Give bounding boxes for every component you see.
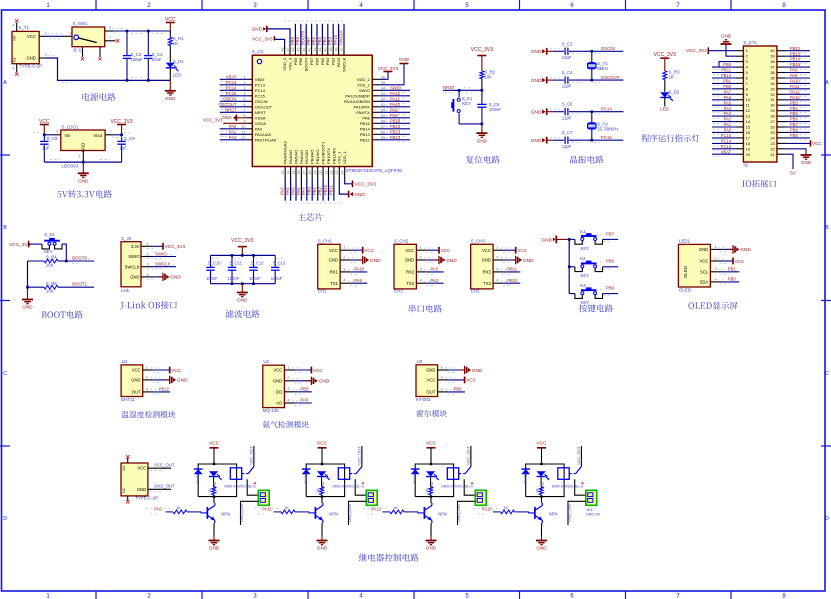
resistor S_R1 xyxy=(168,36,184,62)
wires chip bottom pins xyxy=(280,167,345,204)
power GND S_CH3 xyxy=(504,256,534,264)
svg-text:PA8: PA8 xyxy=(300,398,308,403)
svg-text:PB7: PB7 xyxy=(606,231,615,236)
svg-text:PB15: PB15 xyxy=(360,121,371,126)
svg-text:PB3: PB3 xyxy=(328,36,333,45)
svg-text:VSS_1: VSS_1 xyxy=(337,151,342,164)
svg-text:PA15: PA15 xyxy=(336,57,341,67)
ground GND relay xyxy=(317,523,328,551)
svg-text:S_U1: S_U1 xyxy=(252,49,264,54)
wire ground rail xyxy=(39,53,170,83)
svg-text:GND: GND xyxy=(721,33,732,38)
svg-text:PB12: PB12 xyxy=(390,135,401,140)
svg-text:VCC: VCC xyxy=(517,248,527,253)
svg-text:PA3: PA3 xyxy=(724,111,732,116)
ground GND ldo xyxy=(78,162,89,183)
svg-text:12pF: 12pF xyxy=(562,55,572,60)
svg-text:32: 32 xyxy=(770,92,774,97)
svg-text:PB9: PB9 xyxy=(723,62,731,67)
svg-text:VBAT: VBAT xyxy=(721,149,732,154)
wires chip left pins xyxy=(218,75,252,143)
transistor NPN relay xyxy=(417,497,447,523)
svg-text:VCC: VCC xyxy=(466,378,476,383)
svg-text:CH3: CH3 xyxy=(471,288,480,293)
svg-text:21: 21 xyxy=(324,171,328,175)
svg-text:PB14: PB14 xyxy=(790,57,801,62)
svg-text:CH1: CH1 xyxy=(318,288,327,293)
svg-text:1N4007: 1N4007 xyxy=(196,471,200,484)
relay coil SRD-05VDC-SL-C xyxy=(224,468,256,489)
svg-text:SRD-05VDC-SL-C: SRD-05VDC-SL-C xyxy=(224,483,256,488)
svg-text:VCC_OUT: VCC_OUT xyxy=(466,446,471,465)
svg-text:GND: GND xyxy=(370,258,381,264)
svg-text:PB2: PB2 xyxy=(318,186,323,195)
svg-text:1: 1 xyxy=(78,155,80,159)
module U1 DHT11 xyxy=(121,359,143,402)
svg-text:PC13: PC13 xyxy=(226,80,237,85)
resistor 1K led xyxy=(535,477,543,497)
net 5V io xyxy=(785,154,797,175)
svg-text:S_R4: S_R4 xyxy=(46,255,57,260)
power VCC ldo xyxy=(39,119,50,135)
svg-text:24: 24 xyxy=(341,171,345,175)
svg-text:OSCOUT: OSCOUT xyxy=(601,75,620,80)
resistor 1K led xyxy=(425,477,433,497)
wire relay frame xyxy=(526,463,564,498)
svg-text:PA7: PA7 xyxy=(724,89,732,94)
svg-text:PA8: PA8 xyxy=(790,68,798,73)
svg-text:OSCIN: OSCIN xyxy=(601,46,615,51)
svg-text:SDA: SDA xyxy=(700,280,709,285)
svg-text:10uF: 10uF xyxy=(152,57,162,62)
svg-text:18: 18 xyxy=(308,171,312,175)
svg-text:46: 46 xyxy=(291,48,295,52)
svg-text:VCC: VCC xyxy=(313,368,323,373)
svg-text:RX2: RX2 xyxy=(406,270,415,275)
caption 继电器控制电路 xyxy=(359,554,419,562)
svg-text:S_CH1: S_CH1 xyxy=(318,239,333,244)
IC U1 STM32F103C8T6 main chip xyxy=(252,49,402,173)
svg-text:PB11/RX: PB11/RX xyxy=(331,148,336,164)
power VCC S_CH3 xyxy=(504,247,528,254)
svg-text:PA8: PA8 xyxy=(390,113,398,118)
svg-text:OLED: OLED xyxy=(683,266,688,278)
svg-text:PB14: PB14 xyxy=(390,124,401,129)
svg-text:4: 4 xyxy=(343,279,345,283)
svg-text:PB12: PB12 xyxy=(360,137,371,142)
power GND S_CH1 xyxy=(351,256,381,264)
terminal JK green xyxy=(586,490,597,505)
svg-text:9: 9 xyxy=(244,119,246,123)
svg-text:VCC_OUT: VCC_OUT xyxy=(357,446,362,465)
svg-text:KEY: KEY xyxy=(581,300,590,305)
svg-text:GND: GND xyxy=(22,305,33,310)
svg-text:S_CH3: S_CH3 xyxy=(471,239,486,244)
svg-text:S_C3: S_C3 xyxy=(562,41,573,46)
svg-text:18: 18 xyxy=(746,141,750,146)
svg-text:GND: GND xyxy=(446,258,457,264)
power VCC_3V3 runled xyxy=(654,52,676,71)
svg-text:4: 4 xyxy=(420,279,422,283)
resistor 1K base xyxy=(166,505,202,514)
power GND jlink xyxy=(152,273,181,281)
svg-text:SRD-05VDC-SL-C: SRD-05VDC-SL-C xyxy=(332,483,364,488)
svg-text:S_LDO1: S_LDO1 xyxy=(62,124,79,129)
svg-text:40: 40 xyxy=(324,48,328,52)
svg-text:S_C4: S_C4 xyxy=(562,70,573,75)
svg-text:GND: GND xyxy=(523,258,534,264)
net BOOT0 xyxy=(66,256,94,264)
svg-text:5V: 5V xyxy=(790,171,797,176)
svg-text:NPN: NPN xyxy=(438,511,447,516)
diode 1N4007 flyback xyxy=(194,469,203,484)
svg-text:PB10: PB10 xyxy=(323,184,328,195)
wires S_CH1 xyxy=(340,246,358,286)
crystal S_Y2 xyxy=(588,112,619,141)
svg-text:K1: K1 xyxy=(580,229,586,234)
LED S_D2 xyxy=(660,90,680,112)
svg-text:S_C12: S_C12 xyxy=(251,261,264,266)
caption OLED显示屏 xyxy=(688,302,737,310)
svg-text:PA4: PA4 xyxy=(285,187,290,195)
svg-text:38: 38 xyxy=(770,59,774,64)
svg-text:41: 41 xyxy=(318,48,322,52)
svg-text:PA10: PA10 xyxy=(390,102,401,107)
svg-text:VDD_2: VDD_2 xyxy=(357,77,371,82)
svg-text:SWIO: SWIO xyxy=(359,88,370,93)
svg-text:PB0/AO: PB0/AO xyxy=(310,150,315,164)
wire S_T1 VCC to S_SW1 xyxy=(39,31,72,39)
power GND VSS_2 xyxy=(380,57,410,85)
svg-text:NPN: NPN xyxy=(329,511,338,516)
svg-text:PA7: PA7 xyxy=(301,187,306,195)
power VCC relay xyxy=(209,441,220,464)
power GND U2 xyxy=(295,377,330,385)
capacitor S_C6 with PC14 net xyxy=(531,102,624,121)
diode 1N4007 flyback xyxy=(521,469,530,484)
power VCC_3V3 boot xyxy=(9,241,42,248)
svg-text:3: 3 xyxy=(56,130,58,134)
svg-text:RX1: RX1 xyxy=(330,270,339,275)
connector S_J0 J-Link xyxy=(121,236,155,293)
transistor NPN relay xyxy=(200,497,230,523)
power GND io top xyxy=(721,33,736,56)
svg-text:CH2: CH2 xyxy=(394,288,403,293)
button K1 xyxy=(569,229,618,251)
caption BOOT电路 xyxy=(42,311,83,319)
svg-text:GND: GND xyxy=(405,258,414,263)
svg-text:GND: GND xyxy=(482,258,491,263)
svg-text:GND: GND xyxy=(426,368,435,373)
svg-text:4: 4 xyxy=(496,279,498,283)
svg-text:PA15: PA15 xyxy=(482,506,493,511)
wires chip top pins xyxy=(280,21,344,55)
caption 按键电路 xyxy=(579,304,613,312)
svg-text:SWCLK: SWCLK xyxy=(155,262,171,267)
resistor 1K base xyxy=(493,505,529,514)
wire relay NO to terminal xyxy=(247,479,258,495)
svg-text:44: 44 xyxy=(302,48,306,52)
power VCC_3V3 top xyxy=(252,36,284,46)
svg-text:1uF: 1uF xyxy=(119,145,127,150)
svg-text:5: 5 xyxy=(244,97,246,101)
diode 1N4007 flyback xyxy=(302,469,311,484)
svg-text:39: 39 xyxy=(770,54,774,59)
svg-text:GND_OUT: GND_OUT xyxy=(566,502,571,522)
svg-text:5: 5 xyxy=(746,70,748,75)
svg-text:PA0: PA0 xyxy=(154,506,162,511)
button S_K1 xyxy=(451,90,482,124)
svg-text:VCC: VCC xyxy=(427,378,436,383)
net NRST wire xyxy=(443,85,482,93)
svg-text:3: 3 xyxy=(287,387,289,391)
svg-text:PC14: PC14 xyxy=(255,88,266,93)
svg-text:PA9: PA9 xyxy=(354,278,362,283)
svg-text:PA3/RX/UA0: PA3/RX/UA0 xyxy=(283,140,288,164)
svg-text:PB11: PB11 xyxy=(507,267,518,272)
caption 串口电路 xyxy=(409,305,442,313)
svg-text:PA6: PA6 xyxy=(724,95,732,100)
net PA9 S_CH1 xyxy=(351,278,368,283)
svg-text:1: 1 xyxy=(715,245,717,249)
svg-text:GND: GND xyxy=(131,378,140,383)
svg-text:PC13: PC13 xyxy=(255,82,266,87)
svg-text:GND: GND xyxy=(177,378,188,384)
relay contact xyxy=(459,467,473,485)
svg-text:GND: GND xyxy=(26,56,35,61)
svg-text:2: 2 xyxy=(147,252,149,256)
wires U1 xyxy=(143,365,161,394)
svg-text:4: 4 xyxy=(147,273,149,277)
svg-text:SWCLK: SWCLK xyxy=(341,57,346,72)
svg-text:6: 6 xyxy=(746,76,748,81)
net PA10 S_CH1 xyxy=(351,267,368,272)
svg-text:S_T1: S_T1 xyxy=(18,25,29,30)
ground GND boot xyxy=(22,287,33,310)
wire VCC_OUT relay xyxy=(249,446,254,467)
power VCC_3V3 VDD_1 xyxy=(345,178,377,188)
relay contact xyxy=(242,467,256,485)
svg-text:PA0: PA0 xyxy=(724,128,732,133)
wire relay NO to terminal xyxy=(464,479,475,495)
svg-text:PA15: PA15 xyxy=(790,95,800,100)
net PA15 relay xyxy=(474,506,499,514)
svg-text:PC13: PC13 xyxy=(721,144,732,149)
svg-text:PB8: PB8 xyxy=(790,128,798,133)
svg-text:VCC: VCC xyxy=(137,466,146,471)
svg-text:K3: K3 xyxy=(580,283,586,288)
svg-text:9: 9 xyxy=(746,92,748,97)
svg-text:VCC_3V3: VCC_3V3 xyxy=(471,47,493,53)
svg-text:PB10/TX: PB10/TX xyxy=(326,148,331,164)
svg-text:GND: GND xyxy=(317,546,328,551)
caption 温湿度检测模块 xyxy=(121,411,175,418)
svg-text:2: 2 xyxy=(70,31,72,35)
power VCC oled xyxy=(722,258,745,265)
svg-text:PB9: PB9 xyxy=(790,133,798,138)
svg-text:1N4007: 1N4007 xyxy=(304,471,308,484)
svg-text:PB0: PB0 xyxy=(307,186,312,195)
svg-text:PB13: PB13 xyxy=(790,51,801,56)
svg-text:19: 19 xyxy=(746,146,750,151)
svg-text:U1: U1 xyxy=(122,359,128,364)
power GND oled xyxy=(722,245,751,253)
wire relay NO to terminal xyxy=(575,479,586,495)
svg-text:33: 33 xyxy=(770,86,774,91)
svg-text:S_CH2: S_CH2 xyxy=(394,239,409,244)
net PA11 relay xyxy=(254,506,279,514)
svg-text:PB6: PB6 xyxy=(311,36,316,45)
LED relay xyxy=(317,471,330,489)
svg-text:1N4007: 1N4007 xyxy=(413,471,417,484)
svg-text:11: 11 xyxy=(746,103,750,108)
svg-text:VCC_OUT: VCC_OUT xyxy=(576,446,581,465)
svg-text:16: 16 xyxy=(297,171,301,175)
svg-text:S_C11: S_C11 xyxy=(230,261,243,266)
svg-text:OUT: OUT xyxy=(132,390,141,395)
svg-text:S_C8: S_C8 xyxy=(47,136,58,141)
svg-text:PB1: PB1 xyxy=(728,266,737,271)
resistor S_R3 xyxy=(663,70,680,92)
svg-text:PB4: PB4 xyxy=(322,36,327,45)
net PB10 S_CH3 xyxy=(504,278,521,283)
svg-text:37: 37 xyxy=(340,48,344,52)
svg-text:PB10: PB10 xyxy=(507,278,518,283)
svg-text:GND: GND xyxy=(222,115,232,120)
power VCC S_CH2 xyxy=(427,247,451,254)
svg-text:VCC: VCC xyxy=(426,441,437,447)
terminal JK green xyxy=(475,490,486,505)
svg-text:PA10: PA10 xyxy=(790,79,800,84)
svg-text:PA10: PA10 xyxy=(354,267,365,272)
svg-text:GND: GND xyxy=(130,275,139,280)
net PB6 U3 xyxy=(448,387,465,392)
svg-text:PB10: PB10 xyxy=(721,73,732,78)
svg-text:PB1: PB1 xyxy=(312,186,317,195)
wire GND_OUT relay xyxy=(239,501,258,525)
svg-text:C: C xyxy=(825,371,829,377)
svg-text:2: 2 xyxy=(715,256,717,260)
svg-text:PB1/AO: PB1/AO xyxy=(315,150,320,164)
svg-text:6: 6 xyxy=(244,103,246,107)
svg-text:LDO3V3: LDO3V3 xyxy=(62,164,79,169)
svg-text:OSCIN: OSCIN xyxy=(223,97,236,102)
svg-text:10K: 10K xyxy=(484,74,492,79)
LED relay xyxy=(426,471,439,489)
svg-text:28: 28 xyxy=(770,114,774,119)
svg-text:17: 17 xyxy=(746,135,750,140)
svg-text:PA11: PA11 xyxy=(262,506,272,511)
svg-text:VBAT: VBAT xyxy=(255,77,266,82)
svg-text:N2: N2 xyxy=(122,488,126,493)
svg-text:U3: U3 xyxy=(417,359,423,364)
port GND keys xyxy=(542,236,570,244)
relay coil SRD-05VDC-SL-C xyxy=(332,468,364,489)
net PA12 relay xyxy=(363,506,388,514)
svg-text:C: C xyxy=(3,371,7,377)
svg-text:GND: GND xyxy=(426,546,437,551)
svg-text:38: 38 xyxy=(334,48,338,52)
svg-text:3: 3 xyxy=(496,267,498,271)
svg-text:PC15: PC15 xyxy=(601,135,613,140)
svg-text:VCC: VCC xyxy=(209,441,220,447)
svg-text:3: 3 xyxy=(147,263,149,267)
capacitor S_C7 with PC15 net xyxy=(531,130,624,149)
svg-text:VCC: VCC xyxy=(171,368,181,373)
caption 5V转3.3V电路 xyxy=(57,190,112,198)
svg-text:TX1: TX1 xyxy=(330,281,338,286)
svg-text:D: D xyxy=(825,516,829,522)
svg-text:KEY: KEY xyxy=(462,101,471,106)
module U2 MQ-135 xyxy=(263,359,285,413)
port GND VSS_3 xyxy=(252,26,290,46)
svg-text:VCC: VCC xyxy=(27,34,36,39)
connector S_CH2 xyxy=(394,239,416,294)
svg-text:2: 2 xyxy=(343,255,345,259)
svg-text:GND: GND xyxy=(170,275,181,281)
net SWCLK xyxy=(152,262,176,269)
svg-text:26: 26 xyxy=(770,125,774,130)
svg-text:PA5/AO: PA5/AO xyxy=(293,150,298,164)
svg-text:GND: GND xyxy=(329,258,338,263)
power VCC_3V3 VDDA xyxy=(203,118,247,125)
wire relay frame xyxy=(198,463,236,498)
power VCC_3V3 reset xyxy=(471,47,493,71)
wire GND_OUT relay xyxy=(456,501,475,525)
net PB5 U2 xyxy=(295,386,312,391)
svg-text:D: D xyxy=(3,516,7,522)
svg-text:PA5: PA5 xyxy=(290,187,295,195)
svg-text:2: 2 xyxy=(420,255,422,259)
svg-text:GND_OUT: GND_OUT xyxy=(154,484,175,489)
wire keys rail xyxy=(568,238,571,294)
svg-text:PB5: PB5 xyxy=(320,57,325,65)
relay contact xyxy=(350,467,364,485)
transistor NPN relay xyxy=(308,497,338,523)
svg-text:DO: DO xyxy=(276,389,283,394)
power GND U3 xyxy=(448,366,483,374)
svg-text:S_J0: S_J0 xyxy=(121,236,132,241)
power VCC U2 xyxy=(295,367,323,374)
svg-text:PA1: PA1 xyxy=(724,122,732,127)
ground GND reset xyxy=(476,124,487,143)
regulator S_LDO1 xyxy=(61,124,105,168)
svg-text:PB7: PB7 xyxy=(306,36,311,45)
wires S_CH3 xyxy=(493,246,511,286)
net VCC_OUT t2 xyxy=(148,462,175,470)
diode 1N4007 flyback xyxy=(411,469,420,484)
svg-text:2: 2 xyxy=(441,375,443,379)
svg-text:PB8: PB8 xyxy=(295,36,300,45)
wires chip right pins xyxy=(372,75,410,142)
svg-text:17: 17 xyxy=(303,171,307,175)
power VCC xyxy=(165,17,176,31)
wire VCC_OUT relay xyxy=(576,446,581,467)
svg-text:GND: GND xyxy=(399,57,410,62)
svg-text:PA1/UA0: PA1/UA0 xyxy=(255,132,272,137)
svg-text:PB12: PB12 xyxy=(790,46,801,51)
relay coil SRD-05VDC-SL-C xyxy=(552,468,584,489)
svg-text:BOOT1: BOOT1 xyxy=(72,282,87,287)
power VCC S_CH1 xyxy=(351,247,375,254)
svg-text:1K: 1K xyxy=(425,488,429,493)
svg-text:SRD-05VDC-SL-C: SRD-05VDC-SL-C xyxy=(552,483,584,488)
svg-text:VSSA: VSSA xyxy=(255,115,266,120)
svg-text:10K: 10K xyxy=(46,262,54,267)
svg-text:PA8: PA8 xyxy=(362,115,370,120)
power GND U1 xyxy=(153,376,188,384)
svg-text:48: 48 xyxy=(280,48,284,52)
